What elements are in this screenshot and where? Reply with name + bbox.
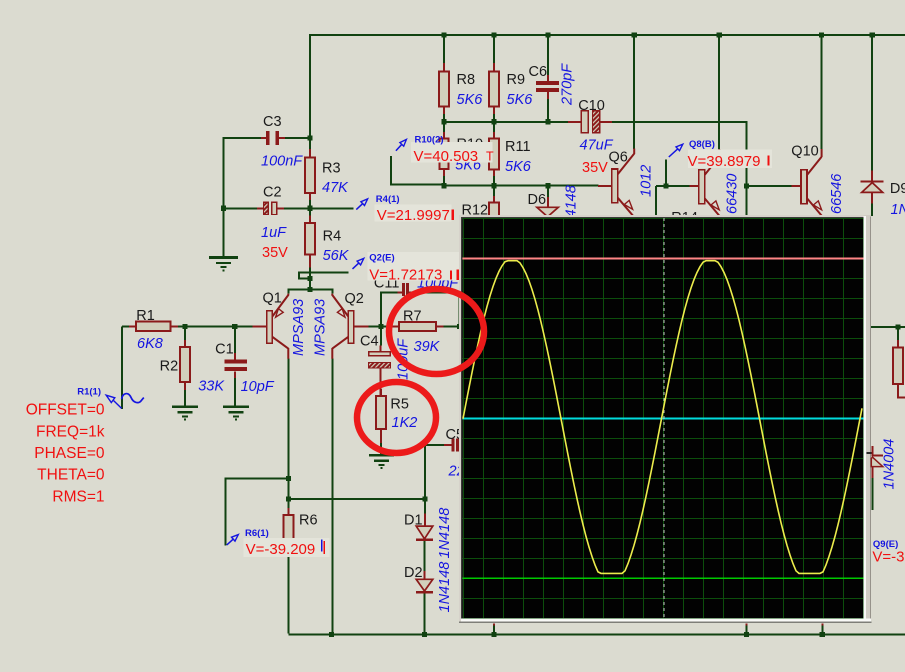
capacitor C1	[234, 353, 236, 359]
oscilloscope trace green	[463, 577, 864, 579]
junction dots top rail	[441, 32, 446, 37]
svg-text:THETA=0: THETA=0	[37, 467, 105, 484]
oscilloscope bottom frame strip	[461, 619, 871, 622]
diode D6 1N4148	[547, 197, 549, 208]
oscilloscope trace cyan	[463, 417, 864, 419]
resistor R5	[380, 389, 382, 396]
diode 1N4004 (partially hidden)	[871, 455, 883, 457]
wire R5 bottom to ground	[380, 443, 382, 456]
red highlight ellipse around R5	[357, 382, 436, 453]
wire R1 right to Q1 base	[171, 326, 253, 328]
svg-text:FREQ=1k: FREQ=1k	[36, 423, 105, 440]
svg-text:270pF: 270pF	[560, 63, 576, 106]
svg-text:6K8: 6K8	[137, 336, 163, 352]
svg-text:R9: R9	[507, 72, 526, 88]
wire C3 left + C2 column to ground	[224, 138, 262, 257]
svg-text:V=40.503: V=40.503	[414, 148, 479, 165]
transistor Q2 MPSA93 (PNP)	[354, 326, 369, 328]
wire R12 top	[493, 186, 495, 196]
svg-text:V=-3: V=-3	[872, 549, 904, 566]
wire stub R12 bottom	[493, 623, 495, 626]
wire C2 right / R4(1) probe wire	[284, 207, 354, 209]
wire D1 top	[424, 499, 426, 513]
wire output rail right of scope	[871, 326, 905, 328]
oscilloscope trace pink	[463, 257, 864, 259]
ground under C2	[223, 246, 225, 258]
probe R10(2)	[411, 142, 493, 163]
svg-text:100nF: 100nF	[261, 154, 303, 170]
svg-text:T: T	[486, 150, 494, 164]
wire emitter rail	[288, 289, 332, 293]
svg-text:1uF: 1uF	[261, 225, 287, 241]
transistor Q1 MPSA93 (PNP)	[252, 326, 267, 328]
wire R10 top	[443, 122, 445, 139]
probe Q8(B)	[688, 150, 772, 169]
svg-text:1N4148: 1N4148	[437, 562, 453, 613]
oscilloscope window frame	[459, 215, 871, 623]
wire C5 branch	[425, 445, 444, 499]
svg-text:35V: 35V	[262, 245, 288, 261]
resistor R6	[288, 508, 290, 515]
svg-text:1K2: 1K2	[392, 415, 418, 431]
transistor Q8 (NPN)	[690, 185, 700, 187]
svg-text:35V: 35V	[582, 160, 608, 176]
junction dots base rail	[182, 324, 187, 329]
wire C6 top	[547, 34, 549, 75]
wire R6 top	[288, 499, 290, 508]
svg-text:R8: R8	[457, 72, 476, 88]
diode D9	[871, 171, 873, 182]
resistor R8	[443, 63, 445, 72]
wire stub Q10 emitter bottom	[821, 623, 823, 626]
resistor R9	[493, 63, 495, 72]
resistor R3	[309, 149, 311, 158]
svg-text:RMS=1: RMS=1	[52, 488, 104, 505]
wire R1 left	[122, 326, 129, 328]
transistor Q6 (NPN)	[598, 185, 612, 187]
resistor R12	[493, 196, 495, 203]
svg-text:Q2(E): Q2(E)	[369, 253, 394, 264]
wire R9 top	[493, 34, 495, 63]
svg-text:D2: D2	[404, 565, 423, 581]
wire Q2 base	[364, 326, 381, 328]
ground under R2	[172, 405, 198, 408]
resistor R1	[129, 326, 136, 328]
wire R11 bottom	[493, 169, 495, 186]
svg-text:D1: D1	[404, 513, 423, 529]
wire R7 left	[381, 326, 392, 328]
wire R2 top	[184, 327, 186, 341]
wire R8 top	[443, 34, 445, 63]
transistor Q10 (NPN)	[792, 185, 802, 187]
wire R10 bottom	[443, 169, 445, 186]
svg-text:56K: 56K	[323, 248, 350, 264]
wire C6 bottom	[547, 92, 549, 122]
wire Q10 collector	[821, 34, 823, 149]
node output junction	[895, 324, 900, 329]
wire bottom rail	[289, 634, 905, 636]
wire R3 top	[309, 138, 311, 150]
resistor right edge	[897, 327, 899, 340]
junction dots bottom rail	[329, 632, 334, 637]
svg-text:V=21.9997: V=21.9997	[377, 207, 450, 224]
svg-text:R6: R6	[299, 513, 318, 529]
diode D1 1N4148	[424, 514, 426, 527]
wire source vertical	[121, 327, 123, 409]
junction dots left column	[221, 206, 226, 211]
junction dots lower nodes	[286, 476, 291, 481]
wire mid rail y122 left	[444, 121, 569, 123]
wire R4 top	[309, 208, 311, 223]
oscilloscope trace yellow sine	[463, 261, 862, 574]
svg-text:Q10: Q10	[791, 144, 818, 160]
svg-text:D9: D9	[890, 181, 905, 197]
svg-text:Q8(B): Q8(B)	[689, 139, 715, 150]
svg-text:5K6: 5K6	[505, 159, 532, 175]
svg-text:1N4004: 1N4004	[882, 439, 898, 490]
capacitor C10 polarized	[568, 121, 581, 123]
wire R3 bottom	[309, 193, 311, 208]
svg-text:66546: 66546	[829, 173, 845, 214]
wire stub mid bottom	[745, 623, 747, 626]
wire Q2 collector down	[331, 359, 333, 635]
wire mid rail y122 right	[611, 122, 747, 219]
capacitor C11	[398, 291, 403, 293]
wire C11 right to R7 right	[413, 292, 460, 326]
wire Q6 collector	[633, 34, 635, 149]
oscilloscope grid	[463, 218, 864, 619]
svg-text:MPSA93: MPSA93	[313, 299, 329, 356]
svg-text:R7: R7	[403, 309, 422, 325]
capacitor C6	[547, 75, 549, 81]
svg-text:R10(2): R10(2)	[415, 134, 444, 145]
svg-text:1N4148: 1N4148	[891, 202, 905, 218]
svg-text:D6: D6	[528, 192, 547, 208]
svg-text:66430: 66430	[725, 174, 741, 214]
capacitor C2 polarized	[257, 207, 264, 209]
svg-text:C6: C6	[529, 64, 548, 80]
svg-text:C3: C3	[263, 114, 282, 130]
ground under C1	[223, 405, 249, 408]
svg-text:Q1: Q1	[263, 291, 282, 307]
wire probe R6(1) tap	[226, 478, 289, 545]
ground under R5	[369, 454, 394, 457]
wire base rail y186	[444, 185, 599, 187]
probe R6(1)	[244, 538, 330, 557]
oscilloscope screen	[463, 218, 864, 619]
oscilloscope right scrollbar strip	[864, 215, 871, 623]
svg-text:R3: R3	[322, 161, 341, 177]
svg-text:R4: R4	[323, 228, 342, 244]
wire C1 bottom	[234, 372, 236, 407]
svg-text:C1: C1	[215, 342, 234, 358]
wire D2 bottom	[424, 593, 426, 634]
svg-text:V=-39.209: V=-39.209	[246, 541, 316, 558]
probe Q2(E)	[367, 252, 460, 281]
svg-text:C10: C10	[578, 98, 605, 114]
resistor R11	[493, 132, 495, 139]
wire R2 bottom	[184, 382, 186, 407]
svg-text:39K: 39K	[414, 339, 441, 355]
svg-text:R1: R1	[136, 308, 155, 324]
wire top supply rail	[310, 35, 905, 138]
red highlight ellipse around R7	[389, 289, 484, 374]
svg-text:Q2: Q2	[345, 291, 364, 307]
junction dots rail y122	[441, 119, 446, 124]
svg-text:Q6: Q6	[609, 150, 628, 166]
wire emitter node	[309, 279, 311, 290]
wire C4 top	[380, 327, 382, 346]
svg-text:33K: 33K	[198, 378, 225, 394]
capacitor C5	[444, 444, 452, 446]
svg-text:5K6: 5K6	[507, 92, 534, 108]
svg-text:10pF: 10pF	[241, 379, 275, 395]
wire D9 top	[871, 34, 873, 171]
svg-text:PHASE=0: PHASE=0	[34, 445, 105, 462]
resistor R7	[392, 326, 399, 328]
oscilloscope cursor dashed line	[663, 218, 665, 619]
wire D6 top	[547, 186, 549, 198]
wire Q2(E) probe tap	[299, 273, 348, 279]
resistor R4	[309, 216, 311, 224]
resistor R2	[184, 340, 186, 347]
wire R11 top	[493, 122, 495, 139]
svg-text:C2: C2	[263, 185, 282, 201]
diode D2 1N4148	[424, 578, 426, 581]
resistor R10	[443, 132, 445, 139]
svg-text:R5: R5	[390, 396, 409, 412]
wire D1-D2 link	[424, 541, 426, 580]
svg-text:R6(1): R6(1)	[245, 528, 269, 539]
junction dots rail y186	[441, 183, 446, 188]
svg-text:C4: C4	[360, 333, 379, 349]
wire R6 bottom to bottom rail	[288, 547, 290, 634]
svg-text:47K: 47K	[322, 180, 349, 196]
svg-text:1N4148: 1N4148	[437, 508, 453, 559]
wire C3 right to R3 node	[285, 137, 311, 139]
svg-text:V=1.72173: V=1.72173	[369, 266, 442, 283]
svg-text:1012: 1012	[639, 165, 655, 197]
wire R9 bottom	[493, 107, 495, 122]
svg-text:R11: R11	[505, 139, 531, 155]
wire Q1 collector / R6 column	[288, 359, 290, 500]
wire node row y499	[289, 498, 425, 500]
capacitor C3	[261, 137, 266, 139]
probe R4(1)	[375, 205, 452, 222]
svg-text:R1(1): R1(1)	[77, 387, 101, 398]
svg-text:OFFSET=0: OFFSET=0	[26, 402, 105, 419]
capacitor C4 polarized	[380, 346, 382, 352]
wire R8 bottom	[443, 107, 445, 122]
wire Q8 base net	[656, 160, 690, 219]
wire probe R10(2) tap	[391, 156, 444, 185]
probe R1(1)	[114, 401, 122, 409]
svg-text:5K6: 5K6	[457, 92, 484, 108]
wire Q10 base	[747, 185, 792, 187]
svg-text:R4(1): R4(1)	[376, 194, 400, 205]
svg-text:V=39.8979: V=39.8979	[688, 153, 761, 170]
generator source squiggle R1(1)	[122, 394, 144, 403]
svg-text:R2: R2	[160, 358, 179, 374]
svg-text:MPSA93: MPSA93	[291, 299, 307, 356]
wire R4 bottom	[309, 255, 311, 279]
wire R7 right	[443, 326, 462, 328]
wire C11 left column	[381, 292, 398, 326]
wire Q8 collector	[718, 34, 720, 149]
wire C1 top	[234, 327, 236, 354]
